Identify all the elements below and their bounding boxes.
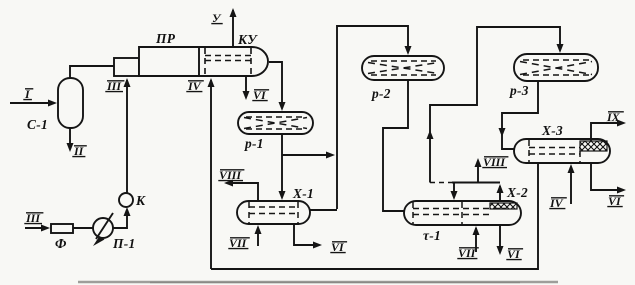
- arrowhead R-1 branch: [326, 152, 335, 159]
- reactor R-2: [362, 56, 444, 80]
- arrowhead P-1 pump: [93, 236, 105, 246]
- label stream IX: [606, 110, 624, 124]
- wire stream VI out of X-3: [591, 163, 622, 190]
- svg-text:Х-3: Х-3: [541, 123, 563, 138]
- arrowhead T-1 vapour riser: [427, 130, 434, 139]
- X-3 hatched section: [580, 141, 607, 151]
- label stream VI below KU: [252, 88, 269, 102]
- svg-text:Х-1: Х-1: [292, 186, 314, 201]
- arrowhead into R-2: [405, 46, 412, 55]
- reactor R-1: [238, 112, 313, 134]
- label stream IV into PR: [186, 79, 204, 93]
- wire stream VI coolant out of X-1: [294, 224, 318, 245]
- compressor K: [119, 193, 133, 207]
- KU internal dashed tube left: [204, 48, 206, 75]
- arrowhead stream VIII from T-1: [475, 158, 482, 167]
- wire R-1 branch to riser: [282, 154, 327, 156]
- arrowhead stream IV into PR: [208, 78, 215, 87]
- wire header reflux into T-1: [453, 183, 455, 198]
- arrowhead stream IV into X-3: [568, 164, 575, 173]
- label stream VIII from X-1: [218, 168, 244, 182]
- arrowhead stream I: [48, 100, 57, 107]
- arrowhead into R-1: [279, 102, 286, 111]
- arrowhead stream VI below KU: [243, 91, 250, 100]
- svg-text:Ф: Ф: [55, 236, 67, 251]
- wire X-3 bottoms recycle: [211, 163, 538, 269]
- arrowhead stream VI from X-1: [313, 242, 322, 249]
- wire C-1 top to PR inlet box: [70, 66, 114, 78]
- wire stream IV recycle riser into PR: [210, 80, 212, 269]
- wire T-1 vapour header solid: [452, 182, 500, 184]
- arrowhead stream III into PR: [124, 78, 131, 87]
- arrowhead stream II: [67, 143, 74, 152]
- wire stream III feed: [25, 227, 46, 229]
- wire R-3 outlet to X-3: [502, 81, 538, 149]
- svg-text:τ-1: τ-1: [423, 228, 441, 243]
- wire R-2 outlet to T-1: [383, 80, 408, 211]
- arrowhead stream U: [230, 8, 237, 17]
- condenser X-3: [514, 139, 610, 163]
- svg-text:КУ: КУ: [237, 32, 258, 47]
- label stream IV into X-3: [549, 196, 567, 210]
- label stream VII into X-1: [228, 236, 250, 250]
- wire PR/KU divider: [198, 47, 200, 76]
- wire X-1 outlet to riser: [310, 209, 337, 211]
- arrowhead stream VII into X-1: [255, 225, 262, 234]
- wire stream I feed into C-1: [10, 102, 53, 104]
- arrowhead into X-1: [279, 191, 286, 200]
- wire R-1 outlet down to X-1: [281, 134, 283, 197]
- label stream VI from X-1: [330, 240, 347, 254]
- arrowhead stream IX: [617, 120, 626, 127]
- label stream VII into T-1: [457, 246, 479, 260]
- column T-1 with built-in condenser X-2: [404, 201, 521, 225]
- svg-text:р-2: р-2: [371, 86, 391, 101]
- arrowhead stream III feed: [41, 225, 50, 232]
- wire stream VI coolant out of T-1: [499, 225, 501, 251]
- arrowhead X-2 vapour: [497, 184, 504, 193]
- svg-text:ПР: ПР: [155, 31, 176, 46]
- svg-text:р-1: р-1: [244, 136, 264, 151]
- KU internal dashed tube bottom: [205, 60, 251, 62]
- svg-text:К: К: [135, 193, 146, 208]
- reactor PR body with KU boiler shell: [139, 47, 268, 76]
- wire T-1 vapour to R-3: [430, 27, 560, 183]
- KU internal dashed tube right: [250, 48, 252, 75]
- arrowhead R-3 outlet down: [499, 128, 506, 137]
- svg-text:Х-2: Х-2: [506, 185, 528, 200]
- wire K up to PR inlet box (stream III): [126, 80, 128, 193]
- wire P-1 to K: [113, 212, 127, 228]
- KU internal dashed tube top: [205, 55, 251, 57]
- svg-text:р-3: р-3: [509, 83, 529, 98]
- wire stream VII coolant into X-1: [257, 228, 259, 246]
- reactor R-3: [514, 54, 598, 81]
- wire KU outlet to R-1: [269, 62, 282, 107]
- furnace/pump P-1: [93, 218, 113, 238]
- wire X-2 vapour up to header: [499, 186, 501, 201]
- label stream VI from X-3: [607, 194, 624, 208]
- label stream VIII from T-1: [482, 155, 508, 169]
- condenser X-2 hatched section: [490, 203, 517, 209]
- wire stream IV coolant into X-3: [570, 167, 572, 204]
- arrowhead stream VIII from X-1: [224, 180, 233, 187]
- wire riser to R-2: [337, 26, 408, 209]
- wire T-1 vapour header dashed: [430, 182, 452, 184]
- wire stream VII coolant into T-1: [475, 228, 477, 252]
- filter F: [51, 224, 73, 233]
- scan smudge bottom: [78, 281, 558, 284]
- label stream VI from T-1: [506, 247, 523, 261]
- arrowhead stream VI from T-1: [497, 246, 504, 255]
- wire stream VIII out of X-1: [229, 183, 258, 201]
- label stream III feed: [24, 211, 43, 225]
- cooler X-1: [237, 201, 310, 224]
- svg-text:С-1: С-1: [27, 117, 48, 132]
- label stream U: [211, 11, 222, 25]
- label stream I: [23, 87, 33, 101]
- label stream II: [72, 144, 87, 158]
- wire stream VIII out of header: [477, 162, 479, 183]
- wire stream U steam out of KU: [232, 10, 234, 47]
- wire stream IX out of X-3: [591, 123, 622, 141]
- separator C-1: [58, 78, 83, 128]
- wire F to P-1: [73, 227, 93, 229]
- wire stream II out of C-1 bottom: [69, 128, 71, 146]
- svg-text:П-1: П-1: [112, 236, 135, 251]
- reactor PR inlet box: [114, 58, 139, 76]
- arrowhead stream VII into T-1: [473, 226, 480, 235]
- label stream III riser: [105, 79, 124, 93]
- arrowhead stream VI from X-3: [617, 187, 626, 194]
- arrowhead header reflux: [451, 191, 458, 200]
- wire stream VI water out below KU: [245, 76, 247, 96]
- arrowhead into R-3: [557, 44, 564, 53]
- arrowhead into K: [124, 207, 131, 216]
